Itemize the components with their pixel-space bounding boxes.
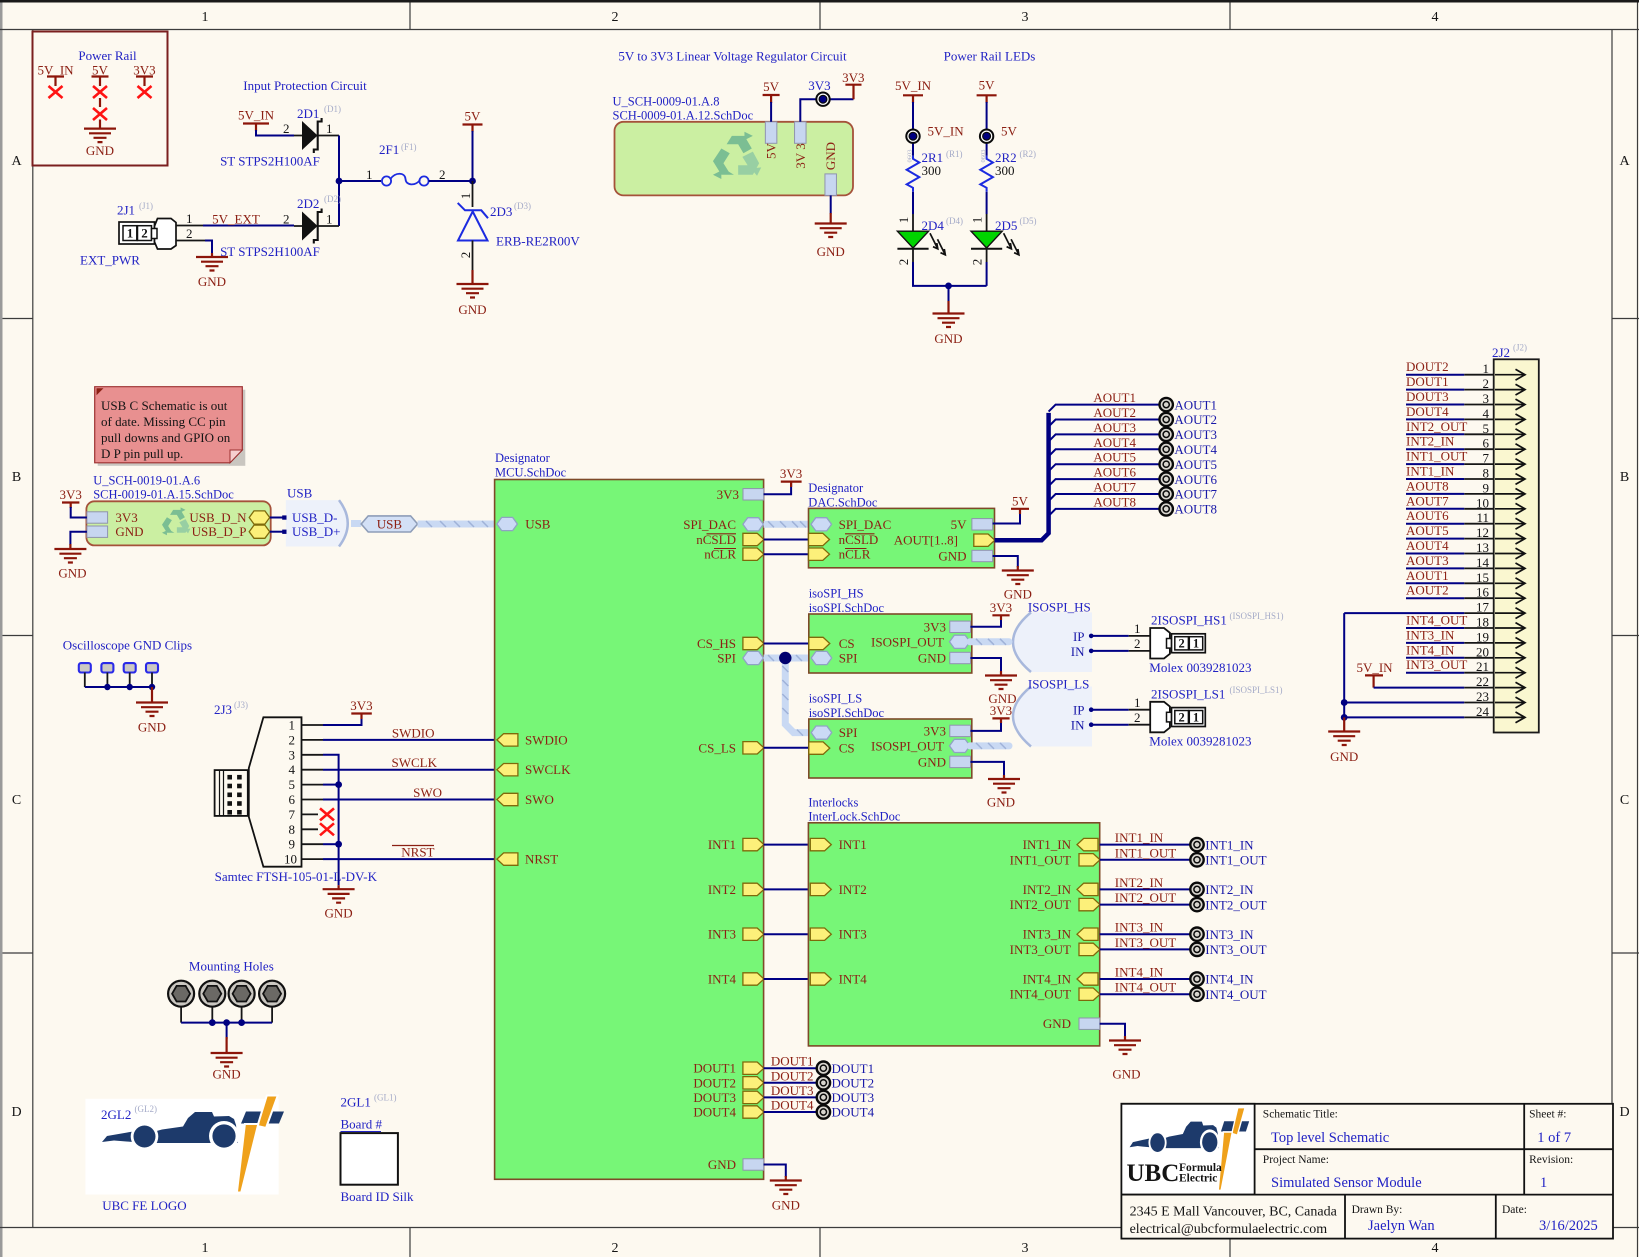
svg-text:ISOSPI_OUT: ISOSPI_OUT <box>871 634 944 649</box>
svg-text:Schematic Title:: Schematic Title: <box>1263 1109 1338 1121</box>
svg-text:INT4_OUT: INT4_OUT <box>1205 987 1266 1002</box>
junction clip bus 3 <box>149 684 155 690</box>
wire CS_LS <box>764 747 810 749</box>
wire 2J2 pin4 DOUT4 <box>1406 418 1494 420</box>
svg-text:AOUT2: AOUT2 <box>1174 412 1217 427</box>
node IN dot (HS) <box>1089 649 1094 654</box>
node USB_D+ <box>282 530 286 534</box>
svg-text:AOUT5: AOUT5 <box>1406 523 1449 538</box>
wire AOUT8 <box>1049 509 1160 516</box>
svg-text:B: B <box>1620 470 1629 485</box>
junction mh bus 1 <box>209 1019 216 1026</box>
svg-text:0603: 0603 <box>907 150 914 163</box>
svg-text:2: 2 <box>141 226 148 241</box>
svg-text:NRST: NRST <box>525 852 558 867</box>
svg-text:0603: 0603 <box>980 150 987 163</box>
sticky note USB C out of date <box>95 387 246 466</box>
isoSPI_LS sheet entry SPI <box>811 726 832 739</box>
svg-text:(R2): (R2) <box>1020 149 1037 159</box>
wire AOUT2 <box>1049 420 1160 427</box>
svg-text:1: 1 <box>326 212 333 227</box>
bus AOUT[1..8] <box>995 413 1049 540</box>
svg-text:2: 2 <box>896 259 911 266</box>
svg-text:AOUT1: AOUT1 <box>1174 397 1217 412</box>
svg-text:3V3: 3V3 <box>133 63 155 78</box>
junction clip bus 1 <box>104 684 110 690</box>
diode 2D2 <box>294 209 339 244</box>
svg-text:GND: GND <box>938 549 966 564</box>
wire AOUT4 <box>1049 449 1160 456</box>
svg-text:GND: GND <box>708 1157 736 1172</box>
svg-text:ST STPS2H100AF: ST STPS2H100AF <box>220 244 320 259</box>
svg-text:1: 1 <box>289 718 296 733</box>
wire 2D4 to ground rail <box>913 249 987 286</box>
svg-text:INT1_IN: INT1_IN <box>1406 464 1455 479</box>
svg-text:(R1): (R1) <box>946 149 963 159</box>
MCU sheet entry nCSLD <box>743 533 764 545</box>
junction mh bus 2 <box>223 1019 230 1026</box>
wire fuse to 5V node <box>429 180 473 182</box>
wire 2J2 pin16 AOUT2 <box>1406 597 1494 599</box>
wire 2J2 pin23 gnd <box>1344 702 1494 704</box>
svg-text:5V: 5V <box>763 79 780 94</box>
2J3 pin stubs <box>302 725 324 859</box>
wire CS_HS <box>764 643 810 645</box>
power port 5V (DAC) <box>1011 494 1029 515</box>
svg-text:INT4_IN: INT4_IN <box>1205 972 1254 987</box>
svg-text:electrical@ubcformulaelectric.: electrical@ubcformulaelectric.com <box>1130 1222 1328 1237</box>
wire IP to molex pin1 (HS) <box>1091 635 1150 637</box>
svg-text:INT4_IN: INT4_IN <box>1023 972 1072 987</box>
wire 2J2 pin17 to gnd bus <box>1344 612 1494 614</box>
wire USB_D_N stub <box>270 517 285 519</box>
svg-text:INT2_IN: INT2_IN <box>1406 434 1455 449</box>
port INT3_OUT <box>1190 943 1203 956</box>
USB sheet pin USB_D_P <box>249 525 270 538</box>
Interlock sheet entry INT4_IN <box>1077 973 1098 985</box>
wire 2J2 pin20 INT4_IN <box>1406 657 1494 659</box>
svg-text:3V3: 3V3 <box>808 78 830 93</box>
wire mounting hole bus <box>181 1023 272 1039</box>
svg-text:AOUT7: AOUT7 <box>1093 480 1136 495</box>
Interlock sheet entry INT2 <box>810 883 831 895</box>
svg-text:4: 4 <box>1432 1241 1439 1256</box>
title block <box>1121 1104 1613 1239</box>
svg-text:INT3_OUT: INT3_OUT <box>1115 935 1176 950</box>
wire 2J3 pin9 to gnd bus <box>323 843 339 845</box>
svg-text:INT3_IN: INT3_IN <box>1023 927 1072 942</box>
svg-text:AOUT1: AOUT1 <box>1093 390 1136 405</box>
svg-text:DOUT2: DOUT2 <box>832 1076 875 1091</box>
wire MCU GND to ground <box>764 1165 786 1178</box>
svg-text:1: 1 <box>202 1241 209 1256</box>
svg-text:3V3: 3V3 <box>924 619 946 634</box>
wire DOUT2 to port <box>764 1082 817 1084</box>
svg-text:(F1): (F1) <box>401 142 417 152</box>
MCU sheet entry CS_LS <box>743 742 764 754</box>
svg-text:Electric: Electric <box>1179 1173 1217 1185</box>
svg-text:5V: 5V <box>951 517 968 532</box>
wire 2J3 pin10 NRST <box>323 858 497 860</box>
diode 2D1 <box>294 118 339 153</box>
svg-text:DOUT1: DOUT1 <box>693 1061 736 1076</box>
svg-text:ISOSPI_HS: ISOSPI_HS <box>1028 600 1091 615</box>
svg-text:(J1): (J1) <box>139 201 153 211</box>
wire IN to molex pin2 (LS) <box>1091 724 1150 726</box>
svg-text:5V: 5V <box>764 142 779 159</box>
svg-text:CS_HS: CS_HS <box>697 636 736 651</box>
port AOUT1 <box>1160 398 1173 411</box>
MCU sheet entry INT3 <box>743 928 764 940</box>
power port 3V3 (USB) <box>60 487 82 508</box>
MCU sheet entry DOUT2 <box>743 1077 764 1089</box>
svg-text:5V: 5V <box>465 109 482 124</box>
LED 2D4 <box>897 231 945 255</box>
ground under USB sheet <box>54 544 86 581</box>
svg-text:INT1_IN: INT1_IN <box>1205 837 1254 852</box>
svg-text:2: 2 <box>1134 710 1141 725</box>
oscilloscope clip 3 <box>124 663 136 672</box>
wire INT1_OUT to port <box>1100 859 1191 861</box>
svg-text:5V_IN: 5V_IN <box>238 108 275 123</box>
svg-text:INT2_IN: INT2_IN <box>1023 882 1072 897</box>
svg-text:1: 1 <box>896 217 911 224</box>
node IP dot (HS) <box>1089 634 1094 639</box>
svg-text:InterLock.SchDoc: InterLock.SchDoc <box>808 810 900 824</box>
svg-text:isoSPI_LS: isoSPI_LS <box>809 692 863 706</box>
svg-text:AOUT6: AOUT6 <box>1406 508 1449 523</box>
wire 2J2 pin3 DOUT3 <box>1406 404 1494 406</box>
mounting hole 2 <box>199 981 225 1007</box>
wire 2J3 pin2 SWDIO <box>323 739 497 741</box>
svg-text:DOUT1: DOUT1 <box>832 1061 875 1076</box>
svg-text:3V 3: 3V 3 <box>793 143 808 168</box>
port INT2_OUT <box>1190 898 1203 911</box>
wire IP to molex pin1 (LS) <box>1091 709 1150 711</box>
DAC sheet entry SPI_DAC <box>811 518 832 531</box>
ground under Interlocks <box>1109 1036 1141 1082</box>
svg-text:GND: GND <box>213 1067 241 1082</box>
port AOUT4 <box>1160 443 1173 456</box>
svg-text:(D2): (D2) <box>324 194 341 204</box>
svg-text:AOUT7: AOUT7 <box>1406 493 1449 508</box>
power port 5V (legend) <box>92 63 109 87</box>
svg-text:SWCLK: SWCLK <box>392 755 438 770</box>
svg-text:INT2_IN: INT2_IN <box>1205 882 1254 897</box>
no-ERC marker pin8 <box>320 823 334 835</box>
wire 2J2 pin8 INT1_IN <box>1406 478 1494 480</box>
power port 5V above regulator <box>763 79 780 103</box>
svg-text:DOUT3: DOUT3 <box>832 1090 875 1105</box>
MCU sheet entry GND <box>743 1159 764 1170</box>
wire 2J2 pin14 AOUT3 <box>1406 567 1494 569</box>
Power Rail legend box <box>33 32 168 166</box>
svg-text:2: 2 <box>1178 710 1184 724</box>
svg-text:2: 2 <box>458 252 473 259</box>
svg-text:(D5): (D5) <box>1020 216 1037 226</box>
Interlock sheet entry GND <box>1079 1018 1100 1029</box>
connector 2J3 <box>215 717 302 866</box>
DAC sheet entry nCLR <box>809 548 830 560</box>
svg-text:1: 1 <box>326 121 333 136</box>
net marker 5V <box>980 130 993 143</box>
svg-text:ISOSPI_LS: ISOSPI_LS <box>1028 677 1089 692</box>
svg-text:UBC FE LOGO: UBC FE LOGO <box>102 1198 187 1213</box>
wire 2J3 pin5 to gnd bus <box>323 784 339 786</box>
isoSPI_LS sheet entry ISOSPI_OUT <box>950 739 971 752</box>
graphic UBC FE LOGO <box>85 1096 284 1195</box>
svg-text:SPI: SPI <box>717 651 736 666</box>
svg-text:INT4_OUT: INT4_OUT <box>1010 987 1071 1002</box>
svg-text:USB: USB <box>287 486 313 501</box>
svg-text:INT4: INT4 <box>708 972 737 987</box>
svg-text:C: C <box>1620 793 1629 808</box>
Interlock sheet entry INT4_OUT <box>1079 988 1100 1000</box>
wire 2J2 pin21 INT3_OUT <box>1406 672 1494 674</box>
ground under 2J2 bus <box>1328 717 1360 764</box>
USB sheet pin 3V3 <box>87 512 108 523</box>
harness USB port to MCU <box>418 521 497 527</box>
svg-text:3V3: 3V3 <box>780 466 802 481</box>
svg-text:DOUT4: DOUT4 <box>1406 404 1449 419</box>
port INT4_OUT <box>1190 988 1203 1001</box>
svg-text:8: 8 <box>289 822 296 837</box>
svg-text:INT3_OUT: INT3_OUT <box>1205 942 1266 957</box>
svg-text:3V3: 3V3 <box>115 510 137 525</box>
wire 2J2 pin1 DOUT2 <box>1406 374 1494 376</box>
net junction marker 3V3 <box>816 93 829 106</box>
sheet symbol isoSPI_HS <box>809 587 972 674</box>
svg-text:AOUT4: AOUT4 <box>1174 442 1217 457</box>
svg-text:GND: GND <box>138 720 166 735</box>
svg-text:Top level Schematic: Top level Schematic <box>1271 1130 1389 1146</box>
svg-text:USB_D_P: USB_D_P <box>192 524 247 539</box>
TVS diode 2D3 <box>458 181 488 270</box>
svg-text:DOUT2: DOUT2 <box>693 1075 736 1090</box>
svg-text:Designator: Designator <box>495 451 551 465</box>
Interlock sheet entry INT1_OUT <box>1079 854 1100 866</box>
wire INT2_OUT to port <box>1100 904 1191 906</box>
svg-text:3: 3 <box>289 747 296 762</box>
svg-text:INT1_IN: INT1_IN <box>1115 830 1164 845</box>
svg-text:2ISOSPI_LS1: 2ISOSPI_LS1 <box>1151 686 1225 701</box>
wire INT2_IN to port <box>1100 888 1191 890</box>
svg-text:DOUT4: DOUT4 <box>832 1105 875 1120</box>
oscilloscope clip 4 <box>146 663 158 672</box>
MCU sheet entry 3V3 <box>743 489 764 500</box>
svg-text:INT4_OUT: INT4_OUT <box>1115 980 1176 995</box>
svg-text:GND: GND <box>918 754 946 769</box>
power port 3V3 <box>842 70 864 99</box>
node 5V junction <box>469 178 476 185</box>
svg-text:INT3: INT3 <box>839 927 867 942</box>
port DOUT1 <box>817 1062 830 1075</box>
svg-text:INT3: INT3 <box>708 927 736 942</box>
isoSPI_HS sheet entry GND <box>950 652 971 663</box>
ground under MCU <box>770 1176 802 1213</box>
svg-text:Board #: Board # <box>341 1117 383 1132</box>
wire 2J2 pin10 AOUT7 <box>1406 508 1494 510</box>
wire 2J2 pin2 DOUT1 <box>1406 389 1494 391</box>
svg-text:2345 E Mall Vancouver, BC, Can: 2345 E Mall Vancouver, BC, Canada <box>1130 1205 1338 1220</box>
port INT3_IN <box>1190 928 1203 941</box>
ground under 2J3 <box>323 885 355 920</box>
sheet symbol U_SCH-0019 USB <box>86 474 270 546</box>
power port 3V3 (isoSPI_HS) <box>990 600 1012 620</box>
svg-text:2: 2 <box>970 259 985 266</box>
gnd bus vertical 2J2 <box>1343 613 1345 717</box>
MCU sheet entry SWCLK <box>497 764 518 776</box>
svg-text:INT4: INT4 <box>839 972 868 987</box>
svg-text:5V_IN: 5V_IN <box>928 124 965 139</box>
oscilloscope clip 1 <box>79 663 91 672</box>
svg-text:INT4_IN: INT4_IN <box>1406 642 1455 657</box>
wire 5V to resistor 2R2 <box>986 102 988 156</box>
no-ERC marker on GND <box>93 108 107 120</box>
svg-text:2J1: 2J1 <box>117 203 135 218</box>
svg-text:SPI_DAC: SPI_DAC <box>839 517 892 532</box>
svg-text:2ISOSPI_HS1: 2ISOSPI_HS1 <box>1151 613 1227 628</box>
svg-text:SPI_DAC: SPI_DAC <box>683 517 736 532</box>
MCU sheet entry NRST <box>497 853 518 865</box>
svg-text:2J2: 2J2 <box>1492 345 1510 360</box>
svg-text:IP: IP <box>1073 703 1085 718</box>
resistor 2R1 <box>907 156 920 192</box>
MCU sheet entry SPI <box>743 651 764 664</box>
svg-text:MCU.SchDoc: MCU.SchDoc <box>495 466 567 480</box>
svg-text:INT2_OUT: INT2_OUT <box>1115 890 1176 905</box>
regulator sheet pin GND <box>825 174 837 196</box>
svg-text:GND: GND <box>987 795 1015 810</box>
svg-text:of date. Missing CC pin: of date. Missing CC pin <box>101 414 226 429</box>
svg-text:SWDIO: SWDIO <box>525 732 568 747</box>
svg-text:6: 6 <box>289 792 296 807</box>
power port 5V_IN (legend) <box>37 63 74 87</box>
wire MCU 3V3 to port <box>764 482 792 495</box>
wire regulator GND pin to ground <box>830 195 832 213</box>
node IN dot (LS) <box>1089 722 1094 727</box>
svg-text:isoSPI_HS: isoSPI_HS <box>809 587 864 601</box>
wire INT3_IN to port <box>1100 933 1191 935</box>
Interlock sheet entry INT3 <box>810 928 831 940</box>
DAC sheet entry AOUT[1..8] <box>974 534 995 546</box>
svg-text:Molex 0039281023: Molex 0039281023 <box>1149 660 1251 675</box>
svg-text:CS: CS <box>839 636 855 651</box>
svg-text:GND: GND <box>1330 749 1358 764</box>
svg-text:AOUT8: AOUT8 <box>1174 502 1217 517</box>
ground under regulator <box>815 213 847 259</box>
wire 2J1 pin2 to ground <box>176 241 212 254</box>
isoSPI_LS sheet entry 3V3 <box>950 725 971 736</box>
svg-text:SPI: SPI <box>839 651 858 666</box>
port INT1_IN <box>1190 838 1203 851</box>
svg-text:INT1_OUT: INT1_OUT <box>1115 845 1176 860</box>
svg-text:(D1): (D1) <box>324 104 341 114</box>
wire 2J2 pin5 INT2_OUT <box>1406 433 1494 435</box>
svg-text:5V_IN: 5V_IN <box>37 63 74 78</box>
mounting hole 1 <box>168 981 194 1007</box>
no-ERC marker on 3V3 <box>138 86 152 98</box>
svg-text:7: 7 <box>289 807 296 822</box>
ground under isoSPI_LS <box>987 775 1020 810</box>
MCU sheet entry CS_HS <box>743 637 764 649</box>
svg-text:Jaelyn Wan: Jaelyn Wan <box>1368 1218 1435 1234</box>
svg-text:2J3: 2J3 <box>214 702 232 717</box>
wire DOUT1 to port <box>764 1067 817 1069</box>
port INT2_IN <box>1190 883 1203 896</box>
wire 5V_IN to resistor 2R1 <box>912 102 914 156</box>
svg-text:1: 1 <box>202 10 209 25</box>
svg-text:Revision:: Revision: <box>1529 1154 1573 1166</box>
wire DOUT4 to port <box>764 1111 817 1113</box>
wire AOUT5 <box>1049 464 1160 471</box>
svg-text:IN: IN <box>1071 644 1085 659</box>
svg-text:C: C <box>12 793 21 808</box>
wire isoSPI_HS GND to ground <box>971 658 1002 672</box>
DAC sheet entry 5V <box>972 519 993 530</box>
svg-text:SCH-0009-01.A.12.SchDoc: SCH-0009-01.A.12.SchDoc <box>613 109 754 123</box>
junction LED ground rail <box>945 283 952 290</box>
svg-text:2D5: 2D5 <box>995 218 1017 233</box>
junction mh bus 3 <box>238 1019 245 1026</box>
sheet symbol MCU <box>495 451 764 1179</box>
svg-text:AOUT2: AOUT2 <box>1093 405 1136 420</box>
DAC sheet entry GND <box>972 550 993 561</box>
wire AOUT3 <box>1049 434 1160 441</box>
wire INT3 <box>764 933 811 935</box>
wire Interlock GND to ground <box>1100 1024 1125 1037</box>
svg-text:USB_D+: USB_D+ <box>292 524 341 539</box>
svg-text:DOUT3: DOUT3 <box>771 1083 814 1098</box>
svg-text:(J3): (J3) <box>234 700 248 710</box>
wire 2J2 pin6 INT2_IN <box>1406 448 1494 450</box>
port DOUT4 <box>817 1105 830 1118</box>
svg-text:A: A <box>11 154 22 169</box>
svg-text:D: D <box>11 1105 21 1120</box>
svg-text:INT2_OUT: INT2_OUT <box>1205 897 1266 912</box>
USB sheet pin USB_D_N <box>249 511 270 524</box>
svg-text:Date:: Date: <box>1502 1204 1527 1216</box>
svg-text:2: 2 <box>439 167 446 182</box>
svg-text:GND: GND <box>86 143 114 158</box>
NRST overline <box>392 845 434 847</box>
wire INT4 <box>764 978 811 980</box>
svg-text:1: 1 <box>366 167 373 182</box>
svg-text:GND: GND <box>115 524 143 539</box>
svg-text:SPI: SPI <box>839 725 858 740</box>
wire 2J3 pin4 SWCLK <box>323 769 497 771</box>
svg-text:SWO: SWO <box>413 785 442 800</box>
wire 5V port to node <box>472 131 474 181</box>
fuse 2F1 <box>382 174 429 186</box>
svg-text:5V_IN: 5V_IN <box>895 78 932 93</box>
oscilloscope clip 2 <box>101 663 113 672</box>
wire 2J2 pin13 AOUT4 <box>1406 553 1494 555</box>
isoSPI_LS sheet entry GND <box>950 756 971 767</box>
svg-text:Interlocks: Interlocks <box>808 795 858 809</box>
harness connector panel ISOSPI_LS <box>1013 677 1092 747</box>
connector 2J2 <box>1494 359 1539 732</box>
connector 2ISOSPI_LS1 <box>1150 702 1205 733</box>
wire 2J2 pin19 INT3_IN <box>1406 642 1494 644</box>
DAC sheet entry nCSLD <box>809 533 830 545</box>
MCU sheet entry SWO <box>497 793 518 805</box>
svg-text:SCH-0019-01.A.15.SchDoc: SCH-0019-01.A.15.SchDoc <box>93 488 234 502</box>
svg-text:DAC.SchDoc: DAC.SchDoc <box>808 495 878 509</box>
wire GND pin to ground (USB) <box>70 532 87 545</box>
MCU sheet entry SWDIO <box>497 734 518 746</box>
svg-text:10: 10 <box>284 852 297 867</box>
